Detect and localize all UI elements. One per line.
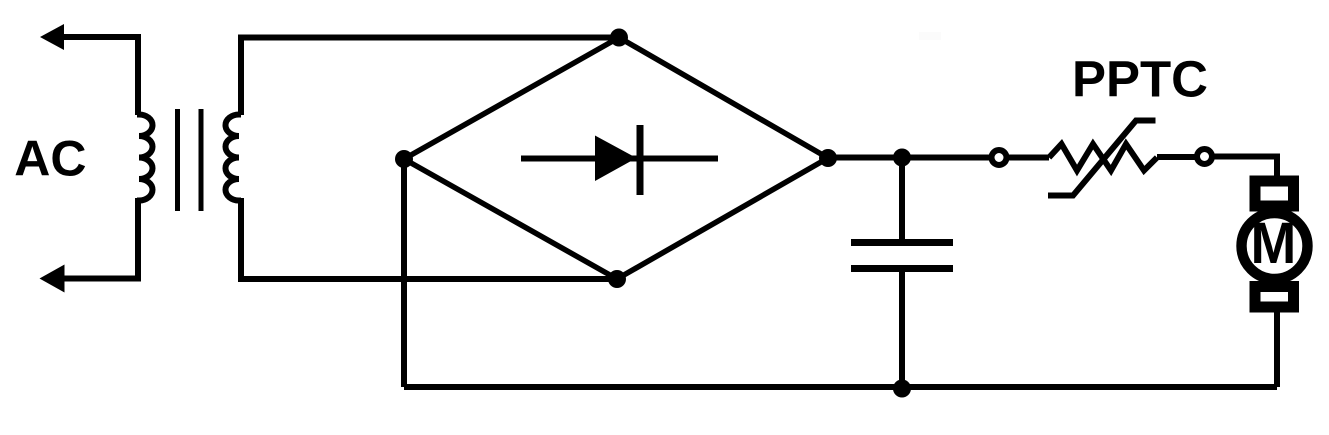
wire PPTC zigzag to right terminal <box>1157 154 1195 160</box>
PPTC F1 strike line <box>1048 121 1156 196</box>
transformer T1 secondary winding <box>225 115 241 201</box>
transformer T1 core <box>175 109 180 211</box>
PPTC F1 resistor zigzag <box>1049 144 1157 171</box>
junction capacitor bottom <box>893 380 911 398</box>
wire junction to capacitor <box>899 158 905 241</box>
wire bottom rail <box>404 384 1277 390</box>
terminal circle left of PPTC <box>992 150 1007 165</box>
AC bottom arrow wire <box>60 198 138 279</box>
transformer T1 primary winding <box>137 115 153 201</box>
node right of bridge <box>819 149 837 167</box>
motor M1 body circle <box>1242 213 1308 279</box>
motor M1 label M <box>1251 211 1297 276</box>
junction capacitor top <box>893 149 911 167</box>
capacitor C1 bottom plate <box>851 265 953 272</box>
artifact faint mark <box>919 32 941 40</box>
bridge rectifier D1 diamond <box>404 38 828 280</box>
wire bridge left down to bottom rail <box>401 159 407 387</box>
diode symbol triangle <box>595 136 637 182</box>
wire bridge right to PPTC terminal <box>828 155 991 161</box>
diode symbol anode line <box>521 156 718 162</box>
wire motor to bottom rail <box>1274 310 1280 387</box>
node left of bridge <box>395 150 413 168</box>
wire secondary bottom to bridge bottom <box>241 198 617 279</box>
terminal circle right of PPTC <box>1197 149 1212 164</box>
node top of bridge <box>610 29 628 47</box>
AC top arrow wire <box>60 37 138 115</box>
wire capacitor to bottom rail <box>899 270 905 387</box>
motor M1 top brush terminal <box>1255 181 1294 206</box>
wire terminal to PPTC zigzag <box>1009 155 1049 161</box>
motor M1 bottom brush terminal <box>1255 287 1294 308</box>
wire right terminal to motor <box>1215 157 1278 179</box>
svg-text:AC: AC <box>14 131 86 187</box>
capacitor C1 top plate <box>851 239 953 246</box>
svg-text:M: M <box>1251 211 1297 276</box>
wire secondary top to bridge top <box>241 38 619 116</box>
AC bottom arrowhead <box>40 265 65 293</box>
node bottom of bridge <box>608 270 626 288</box>
diode symbol cathode bar <box>637 125 644 195</box>
AC top arrowhead <box>40 24 64 50</box>
svg-text:PPTC: PPTC <box>1072 51 1208 108</box>
